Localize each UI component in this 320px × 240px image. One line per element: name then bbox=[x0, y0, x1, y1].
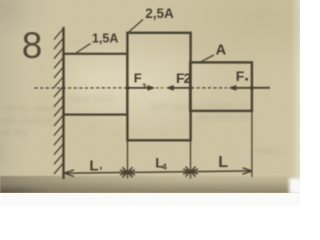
dark page-edge band at bottom bbox=[0, 176, 300, 193]
white corner wedge bottom-right bbox=[289, 178, 303, 194]
wall (fixed support) line bbox=[62, 27, 64, 179]
white strip below page edge bbox=[0, 193, 300, 206]
node dot junction 1 bbox=[126, 86, 130, 90]
centerline dashed in segment 3 bbox=[191, 87, 227, 89]
dimension marks at junction 1 bbox=[120, 167, 135, 177]
centerline dashed middle gap bbox=[157, 87, 166, 89]
wall hatching bbox=[54, 29, 63, 174]
svg-text:F2: F2 bbox=[176, 70, 192, 86]
extension line at junction 1 bbox=[127, 142, 129, 179]
svg-text:F: F bbox=[236, 68, 245, 84]
segment 2 bar (area 2,5A) bbox=[127, 33, 190, 141]
label F3 bbox=[134, 70, 146, 90]
ghost bleed-through text smudges bbox=[6, 106, 58, 115]
svg-text:,: , bbox=[99, 159, 102, 171]
dimension arrow left end (open barbs) bbox=[64, 170, 74, 177]
force F3 arrow (rightward) bbox=[128, 85, 156, 91]
label A with leader bbox=[200, 43, 227, 63]
centerline dashed left part bbox=[35, 87, 128, 89]
svg-text:4: 4 bbox=[162, 162, 167, 172]
node dot at free end bbox=[250, 86, 254, 90]
svg-text:3: 3 bbox=[142, 82, 146, 91]
svg-text:L: L bbox=[218, 154, 228, 171]
label F. bbox=[236, 68, 248, 84]
label 1,5A with leader bbox=[76, 32, 118, 54]
segment 3 bar (area A) bbox=[190, 62, 252, 111]
force F2 arrow (leftward) bbox=[166, 85, 191, 91]
segment 1 bar (area 1,5A) bbox=[64, 54, 128, 115]
dimension marks at junction 2 bbox=[183, 167, 198, 177]
paper background bbox=[0, 0, 300, 194]
label 2,5A with leader bbox=[129, 6, 174, 32]
node dot at wall/centerline bbox=[62, 86, 65, 89]
svg-text:L: L bbox=[89, 158, 98, 175]
label L2 bbox=[155, 155, 167, 172]
svg-text:2,5A: 2,5A bbox=[145, 6, 174, 21]
svg-text:A: A bbox=[216, 43, 227, 59]
label L1 bbox=[89, 158, 102, 175]
svg-text:F: F bbox=[134, 70, 142, 85]
node dot junction 2 bbox=[189, 86, 193, 90]
svg-text:8: 8 bbox=[22, 25, 43, 66]
svg-text:1,5A: 1,5A bbox=[92, 32, 118, 46]
dimension line bbox=[64, 171, 252, 173]
extension line at junction 2 bbox=[190, 142, 192, 179]
extension line at free end bbox=[251, 112, 253, 177]
force F arrow (leftward, at right end) bbox=[228, 85, 270, 91]
dimension arrow right end (open barbs) bbox=[243, 168, 253, 174]
